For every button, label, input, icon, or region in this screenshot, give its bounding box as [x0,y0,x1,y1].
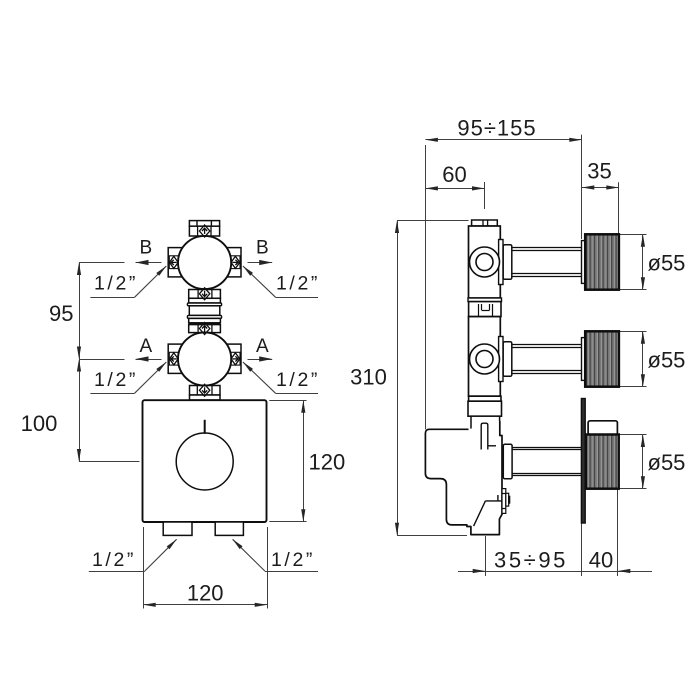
svg-text:95÷155: 95÷155 [457,116,536,141]
svg-text:A: A [139,336,152,357]
svg-text:60: 60 [442,162,466,187]
svg-text:310: 310 [350,365,387,390]
svg-text:ø55: ø55 [648,251,686,276]
svg-text:A: A [256,336,269,357]
svg-text:35: 35 [587,159,611,184]
svg-text:1/2”: 1/2” [276,369,320,391]
svg-text:1/2”: 1/2” [94,369,138,391]
svg-text:1/2”: 1/2” [94,273,138,295]
svg-text:95: 95 [49,301,73,326]
svg-text:120: 120 [309,450,346,475]
svg-text:B: B [139,238,152,259]
svg-text:100: 100 [21,411,58,436]
svg-text:1/2”: 1/2” [271,549,315,571]
svg-text:B: B [256,238,269,259]
svg-text:1/2”: 1/2” [276,273,320,295]
svg-text:1/2”: 1/2” [92,549,136,571]
svg-text:ø55: ø55 [648,348,686,373]
svg-text:ø55: ø55 [648,450,686,475]
svg-text:40: 40 [589,547,613,572]
svg-text:120: 120 [187,581,224,606]
svg-text:35÷95: 35÷95 [494,547,568,572]
